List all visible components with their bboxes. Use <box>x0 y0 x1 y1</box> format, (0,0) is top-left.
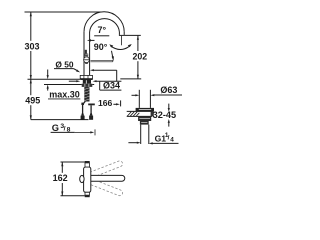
svg-text:4: 4 <box>170 137 174 144</box>
top reference line <box>25 11 102 13</box>
plan spout bar <box>84 175 125 181</box>
G114 arrows <box>128 142 178 145</box>
dia34 leader arrow <box>90 69 117 81</box>
waste flange <box>136 108 154 112</box>
dim 202 outlet ref line <box>125 34 141 36</box>
90deg leader arrow <box>112 51 114 61</box>
plan swivel spout dashed upper <box>87 160 123 179</box>
label G38 <box>52 123 71 134</box>
threaded shank <box>84 87 89 102</box>
dim 162 line <box>61 162 63 196</box>
waste tailpipe <box>141 125 149 144</box>
dia63 arrows <box>132 94 183 96</box>
hose connector right <box>89 113 93 120</box>
counter bottom line <box>44 84 82 86</box>
faucet body left line <box>83 32 85 76</box>
svg-text:Ø63: Ø63 <box>160 85 177 95</box>
svg-text:90°: 90° <box>94 42 108 52</box>
dia50 right arrow and label line <box>93 80 122 82</box>
166 leader arrow <box>113 100 120 106</box>
svg-text:G: G <box>52 123 59 133</box>
lever bar <box>91 60 113 62</box>
hose connector left <box>81 113 85 120</box>
waste tube upper <box>139 90 150 108</box>
swivel arc indicator <box>109 44 132 50</box>
plan top ref line <box>61 161 85 163</box>
plan body bar <box>84 167 91 192</box>
label max30 <box>48 89 80 99</box>
svg-text:7°: 7° <box>97 25 106 35</box>
deck band lines <box>127 111 153 116</box>
bottom reference line <box>31 119 89 121</box>
dim 202 line <box>137 36 139 79</box>
dim 202 counter ref line <box>120 78 141 80</box>
svg-text:202: 202 <box>132 52 147 62</box>
handle ball joint <box>84 57 90 63</box>
svg-text:8: 8 <box>67 127 71 134</box>
svg-text:166: 166 <box>98 98 113 108</box>
spout downcomer outer <box>123 32 125 35</box>
base shadow band <box>83 80 91 84</box>
deck hatching <box>127 112 139 117</box>
supply hose right <box>88 104 95 115</box>
plan bottom ref line <box>61 195 85 197</box>
dia34 label bracket <box>100 81 122 90</box>
handle cartridge stem <box>85 50 87 54</box>
escutcheon upper flange <box>80 75 92 78</box>
plan pivot ellipse <box>80 175 84 182</box>
supply hose left <box>81 101 85 114</box>
dia50 left arrow <box>69 80 80 82</box>
dim 303 line <box>30 12 32 79</box>
svg-text:max.30: max.30 <box>49 89 80 99</box>
svg-text:Ø 50: Ø 50 <box>55 59 73 69</box>
dim max30 upper arrow <box>47 70 49 80</box>
7deg leader <box>87 36 109 42</box>
svg-text:495: 495 <box>25 95 40 105</box>
counter top line <box>28 78 81 80</box>
plan top nub <box>85 161 90 167</box>
spout outlet cap <box>119 35 125 36</box>
dia50 label leader <box>54 69 80 73</box>
plan swivel spout dashed lower <box>87 178 123 197</box>
svg-text:162: 162 <box>53 173 68 183</box>
label G114 <box>155 132 175 144</box>
dim 32-45 arrows <box>168 104 170 127</box>
mounting nut <box>82 84 93 87</box>
dim 495 line <box>30 79 32 119</box>
escutcheon dark lip <box>80 79 92 80</box>
spout downcomer inner <box>118 32 120 35</box>
plan bottom nub <box>85 192 90 197</box>
svg-text:Ø34: Ø34 <box>103 80 120 90</box>
dim max30 lower arrow <box>47 85 49 91</box>
svg-text:303: 303 <box>24 42 39 52</box>
spout outer arc <box>84 12 124 32</box>
handle ball base <box>85 62 88 64</box>
waste locknut <box>138 116 151 124</box>
spout inner arc <box>90 19 120 32</box>
G38 label leader <box>51 129 95 135</box>
faucet body right line <box>89 32 91 76</box>
svg-text:/: / <box>64 125 66 132</box>
outlet stream line <box>121 36 123 45</box>
svg-text:32-45: 32-45 <box>153 110 177 120</box>
handle upper hub <box>84 54 88 58</box>
deck hatching right <box>151 111 154 116</box>
